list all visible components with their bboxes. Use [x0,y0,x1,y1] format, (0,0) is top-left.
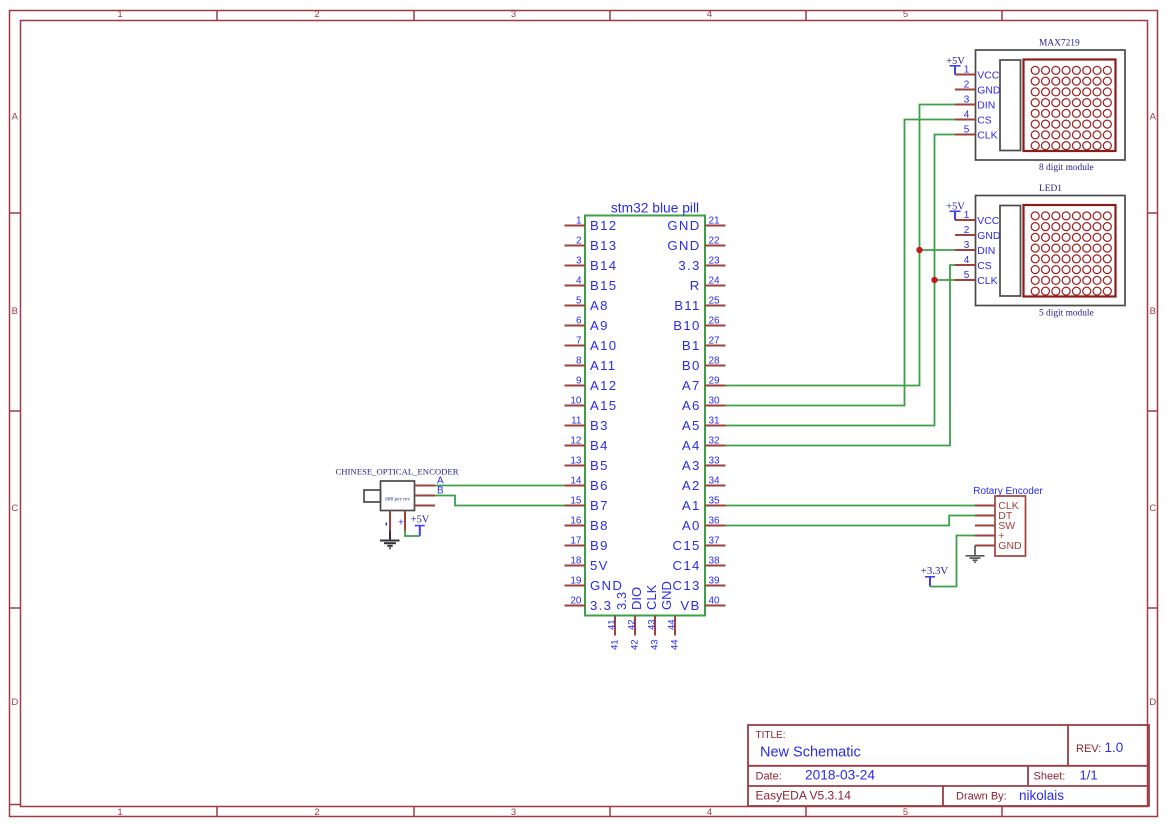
svg-text:B0: B0 [682,358,701,373]
svg-text:GND: GND [667,218,700,233]
svg-text:38: 38 [709,556,721,567]
svg-text:VCC: VCC [977,70,999,81]
U1 pin 44 GND [659,581,677,635]
svg-text:1/1: 1/1 [1080,767,1098,782]
ground (encoder) [380,531,400,549]
svg-text:B11: B11 [674,298,700,313]
svg-text:1: 1 [117,807,122,818]
svg-text:A12: A12 [590,378,617,393]
U1 pin 35 A1 [682,496,726,514]
svg-text:1: 1 [117,9,122,20]
svg-text:4: 4 [964,255,970,266]
U1 pin 24 R [690,276,726,294]
svg-text:GND: GND [659,581,674,610]
svg-text:A10: A10 [590,338,617,353]
svg-text:33: 33 [709,456,721,467]
wire branch LED1 DIN [920,249,956,251]
svg-text:44: 44 [666,619,677,630]
U1 pin 4 B15 [565,276,618,294]
svg-text:5: 5 [903,9,908,20]
power +5V (encoder) [411,515,430,537]
svg-text:27: 27 [709,336,721,347]
svg-text:3: 3 [511,9,516,20]
svg-text:A: A [12,112,19,123]
encoder pin B [415,486,445,497]
svg-text:+: + [398,516,404,528]
U1 pin 23 3.3 [678,256,725,274]
MAX7219 pin 5 CLK [955,124,998,141]
svg-text:2: 2 [314,807,319,818]
U1 pin 13 B5 [565,456,609,474]
svg-text:3: 3 [511,807,516,818]
svg-text:B: B [12,306,18,317]
svg-text:B13: B13 [590,238,617,253]
svg-text:GND: GND [977,231,1000,242]
svg-text:2018-03-24: 2018-03-24 [805,767,875,782]
U1 pin 31 A5 [682,416,726,434]
svg-text:42: 42 [630,639,641,650]
svg-text:5: 5 [903,807,908,818]
svg-text:B15: B15 [590,278,617,293]
svg-text:A8: A8 [590,298,609,313]
svg-text:43: 43 [650,639,661,650]
svg-text:TITLE:: TITLE: [756,730,786,741]
svg-text:LED1: LED1 [1039,184,1062,194]
svg-text:37: 37 [709,536,721,547]
svg-text:A11: A11 [590,358,616,373]
U1 pin 2 B13 [565,236,618,254]
U1 pin 16 B8 [565,516,609,534]
svg-text:New Schematic: New Schematic [760,745,861,761]
svg-text:2: 2 [964,225,970,236]
wire encoder + to +5V [405,531,420,537]
svg-text:3: 3 [964,240,970,251]
LED1 pin 2 GND [955,225,1000,242]
svg-text:B12: B12 [590,218,617,233]
encoder pin C (nc) [415,505,436,507]
svg-text:28: 28 [709,356,721,367]
svg-text:10: 10 [570,396,582,407]
svg-text:EasyEDA V5.3.14: EasyEDA V5.3.14 [756,789,852,803]
svg-text:5: 5 [964,124,970,135]
rotary encoder pin DT [975,510,1013,522]
svg-text:4: 4 [964,109,970,120]
svg-text:36: 36 [709,516,721,527]
svg-text:42: 42 [626,619,637,630]
svg-text:14: 14 [570,476,582,487]
U1 pin 11 B3 [565,416,609,434]
power +5V (MAX7219 VCC) [946,56,965,75]
U1 pin 21 GND [667,216,725,234]
wire U1 A4 to LED1 CS [726,265,956,446]
wire encoder A to U1 B6 [435,485,565,487]
U1 pin 5 A8 [565,296,609,314]
encoder pin A [415,476,445,487]
U1 pin 19 GND [565,576,624,594]
svg-text:D: D [11,697,18,708]
svg-text:stm32 blue pill: stm32 blue pill [611,200,699,215]
svg-text:24: 24 [709,276,721,287]
LED1 pin 5 CLK [955,270,998,287]
U1 pin 38 C14 [673,556,726,574]
svg-text:DIN: DIN [977,100,995,111]
wire branch LED1 CLK [935,279,956,281]
wire rotary encoder + to +3.3V [930,536,975,587]
MAX7219 pin 2 GND [955,79,1000,96]
svg-text:2: 2 [576,236,582,247]
svg-text:16: 16 [570,516,582,527]
U1 pin 25 B11 [674,296,725,314]
svg-text:44: 44 [670,639,681,650]
svg-text:GND: GND [977,85,1000,96]
svg-text:A15: A15 [590,398,617,413]
svg-text:5V: 5V [590,558,609,573]
junction LED1 DIN [916,247,922,253]
svg-text:31: 31 [709,416,721,427]
svg-text:A0: A0 [682,518,701,533]
svg-text:20: 20 [570,596,582,607]
U1 pin 3 B14 [565,256,618,274]
svg-text:Sheet:: Sheet: [1034,770,1066,782]
U1 pin 37 C15 [673,536,726,554]
svg-text:3: 3 [964,94,970,105]
svg-text:8: 8 [576,356,582,367]
svg-text:B9: B9 [590,538,609,553]
svg-text:CS: CS [977,115,992,126]
svg-text:B8: B8 [590,518,609,533]
svg-text:25: 25 [709,296,721,307]
svg-text:19: 19 [570,576,582,587]
svg-text:18: 18 [570,556,582,567]
svg-text:GND: GND [590,578,623,593]
svg-text:21: 21 [709,216,721,227]
U1 pin 43 CLK [644,584,659,635]
svg-text:A: A [1150,112,1157,123]
svg-text:A2: A2 [682,478,701,493]
svg-text:B7: B7 [590,498,609,513]
svg-text:Date:: Date: [756,770,782,782]
svg-text:22: 22 [709,236,721,247]
svg-text:A3: A3 [682,458,701,473]
svg-text:C: C [1149,503,1156,514]
wire U1 A6 to MAX7219 CS [726,120,956,406]
svg-text:D: D [1149,697,1156,708]
ic U1 stm32 blue pill body [585,200,705,615]
svg-text:A6: A6 [682,398,701,413]
svg-text:8 digit module: 8 digit module [1039,163,1094,173]
U1 pin 27 B1 [682,336,726,354]
svg-text:Rotary Encoder: Rotary Encoder [973,486,1043,497]
svg-text:15: 15 [570,496,582,507]
svg-text:3: 3 [576,256,582,267]
U1 pin 14 B6 [565,476,609,494]
svg-text:13: 13 [570,456,582,467]
svg-text:3.3: 3.3 [678,258,700,273]
svg-text:41: 41 [610,639,621,650]
svg-text:43: 43 [646,619,657,630]
svg-text:32: 32 [709,436,721,447]
power +3.3V [921,565,949,587]
MAX7219 pin 3 DIN [955,94,995,111]
svg-text:A4: A4 [682,438,701,453]
svg-text:7: 7 [576,336,582,347]
rotary encoder pin SW [975,520,1015,532]
U1 pin 40 VB [680,596,725,614]
svg-text:A5: A5 [682,418,701,433]
svg-text:C13: C13 [673,578,701,593]
svg-text:CLK: CLK [644,584,659,610]
svg-text:2: 2 [964,79,970,90]
svg-text:MAX7219: MAX7219 [1039,39,1080,49]
svg-text:4: 4 [707,9,712,20]
svg-text:12: 12 [570,436,582,447]
svg-text:29: 29 [709,376,721,387]
rotary encoder pin + [975,530,1004,542]
svg-text:1.0: 1.0 [1105,740,1124,755]
module LED1 LED matrix [1024,205,1116,297]
U1 pin 9 A12 [565,376,618,394]
svg-text:B10: B10 [673,318,700,333]
svg-text:17: 17 [570,536,582,547]
svg-text:DIO: DIO [629,587,644,610]
svg-text:23: 23 [709,256,721,267]
svg-text:C15: C15 [673,538,701,553]
svg-text:39: 39 [709,576,721,587]
svg-text:2: 2 [314,9,319,20]
U1 pin 18 5V [565,556,609,574]
module MAX7219 LED matrix [1024,60,1116,152]
module MAX7219 body [976,50,1126,160]
U1 pin 22 GND [667,236,725,254]
rotary encoder body [973,486,1043,556]
encoder pin + [398,511,405,531]
encoder pin - (gnd) [386,511,390,531]
svg-text:A9: A9 [590,318,609,333]
svg-text:4: 4 [576,276,582,287]
svg-text:B1: B1 [682,338,701,353]
svg-text:4: 4 [707,807,712,818]
svg-text:nikolais: nikolais [1019,788,1064,803]
svg-text:30: 30 [709,396,721,407]
wire encoder B to U1 B7 [435,496,565,506]
svg-text:REV:: REV: [1076,743,1101,755]
svg-text:B4: B4 [590,438,609,453]
svg-text:GND: GND [998,540,1022,552]
svg-text:B6: B6 [590,478,609,493]
svg-text:5: 5 [576,296,582,307]
LED1 pin 4 CS [955,255,992,272]
svg-text:5: 5 [964,270,970,281]
svg-text:DIN: DIN [977,246,995,257]
U1 pin 36 A0 [682,516,726,534]
U1 pin 34 A2 [682,476,726,494]
MAX7219 pin 1 VCC [955,64,1000,81]
svg-text:B3: B3 [590,418,609,433]
svg-text:GND: GND [667,238,700,253]
U1 pin 33 A3 [682,456,726,474]
svg-text:CS: CS [977,261,992,272]
U1 pin 41 3.3 [606,592,629,636]
svg-text:Drawn By:: Drawn By: [956,791,1007,803]
module LED1 body [976,196,1126,306]
U1 pin 10 A15 [565,396,618,414]
svg-text:R: R [690,278,701,293]
svg-text:3.3: 3.3 [614,592,629,610]
svg-text:VCC: VCC [977,216,999,227]
svg-text:C14: C14 [673,558,701,573]
U1 pin 42 DIO [626,587,644,636]
svg-text:9: 9 [576,376,582,387]
svg-text:11: 11 [571,416,582,427]
U1 pin 12 B4 [565,436,609,454]
U1 pin 30 A6 [682,396,726,414]
svg-text:35: 35 [709,496,721,507]
rotary encoder pin GND [975,540,1022,552]
U1 pin 17 B9 [565,536,609,554]
svg-text:C: C [11,503,18,514]
svg-text:3.3: 3.3 [590,598,612,613]
U1 pin 1 B12 [565,216,618,234]
svg-text:+3.3V: +3.3V [921,565,949,577]
wire U1 A0 to rotary encoder DT [726,516,976,526]
svg-text:40: 40 [709,596,721,607]
svg-text:5 digit module: 5 digit module [1039,308,1094,318]
MAX7219 pin 4 CS [955,109,992,126]
power +5V (LED1 VCC) [946,201,965,220]
wire U1 A5 to MAX7219 CLK [726,135,956,426]
U1 pin 6 A9 [565,316,609,334]
svg-text:41: 41 [606,619,617,630]
U1 pin 39 C13 [673,576,726,594]
U1 pin 32 A4 [682,436,726,454]
svg-text:34: 34 [709,476,721,487]
junction LED1 CLK [931,277,937,283]
U1 pin 15 B7 [565,496,609,514]
svg-text:A7: A7 [682,378,701,393]
U1 pin 7 A10 [565,336,618,354]
svg-text:1: 1 [576,216,582,227]
svg-text:VB: VB [680,598,700,613]
U1 pin 26 B10 [673,316,725,334]
svg-text:26: 26 [709,316,721,327]
svg-text:680 per rev: 680 per rev [385,496,410,502]
ground (rotary encoder) [966,546,985,563]
U1 pin 20 3.3 [565,596,613,614]
svg-text:+5V: +5V [411,515,430,526]
svg-text:A1: A1 [682,498,701,513]
rotary encoder pin CLK [975,500,1019,512]
U1 pin 8 A11 [565,356,617,374]
svg-text:B5: B5 [590,458,609,473]
LED1 pin 1 VCC [955,210,1000,227]
svg-text:CLK: CLK [977,130,997,141]
LED1 pin 3 DIN [955,240,995,257]
svg-text:6: 6 [576,316,582,327]
wire U1 A1 to rotary encoder CLK [726,505,976,507]
svg-text:B14: B14 [590,258,617,273]
encoder CHINESE_OPTICAL_ENCODER body [335,467,458,511]
svg-text:CLK: CLK [977,276,997,287]
U1 pin 28 B0 [682,356,726,374]
svg-text:B: B [1150,306,1156,317]
U1 pin 29 A7 [682,376,726,394]
wire U1 A7 to MAX7219 DIN [726,105,956,386]
